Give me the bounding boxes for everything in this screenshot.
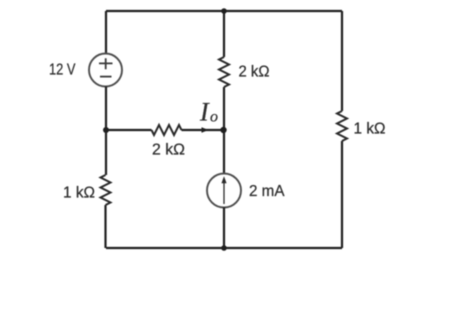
wire bottom xyxy=(106,247,342,249)
resistor R2 2k middle zigzag xyxy=(219,57,229,87)
svg-text:1 kΩ: 1 kΩ xyxy=(354,121,386,138)
svg-text:2 mA: 2 mA xyxy=(249,183,285,200)
wire middle top (top node to 2k resistor) xyxy=(223,11,225,57)
wire middle (2k resistor to mid junction) xyxy=(223,87,225,130)
wire left top (top corner down to source) xyxy=(105,11,107,54)
wire left bottom xyxy=(104,205,106,248)
node D mid junction dot xyxy=(220,127,226,133)
svg-text:2 kΩ: 2 kΩ xyxy=(152,142,185,159)
wire horizontal left segment xyxy=(106,129,152,131)
svg-text:o: o xyxy=(210,109,218,126)
svg-text:12 V: 12 V xyxy=(49,62,76,79)
resistor R1 1k left zigzag xyxy=(101,175,111,205)
voltage source plus sign xyxy=(99,58,113,69)
node C bottom junction dot xyxy=(221,245,227,251)
resistor R4 1k right zigzag xyxy=(337,111,347,141)
wire left middle (source to mid junction) xyxy=(105,87,107,131)
resistor R3 2k horizontal zigzag xyxy=(152,125,182,135)
node B left mid junction dot xyxy=(103,127,109,133)
current source I1 2mA circle xyxy=(207,174,241,208)
node A top junction dot xyxy=(221,8,227,14)
current arrow Io head xyxy=(202,127,209,133)
voltage source V1 12V circle xyxy=(89,54,122,87)
wire right top xyxy=(341,11,343,111)
wire top (node between V-source, 2k resistor, 1k right) xyxy=(106,10,342,12)
wire left lower (junction to 1k resistor) xyxy=(105,130,107,175)
svg-text:1 kΩ: 1 kΩ xyxy=(63,185,95,202)
wire right bottom xyxy=(341,141,343,248)
wire middle bottom (current source to bottom node) xyxy=(223,208,225,249)
wire horizontal right segment xyxy=(182,129,225,131)
wire middle lower (mid junction to current source) xyxy=(223,130,225,174)
current source arrow up xyxy=(223,180,225,204)
svg-text:I: I xyxy=(199,98,210,127)
voltage source minus sign xyxy=(100,76,112,78)
svg-text:2 kΩ: 2 kΩ xyxy=(239,64,270,81)
